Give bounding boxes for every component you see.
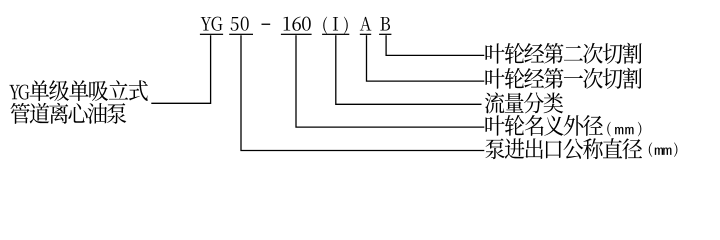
model code number 50 xyxy=(231,17,239,31)
label: impeller after first cut xyxy=(485,68,504,88)
label: impeller after second cut xyxy=(485,43,504,63)
wire from B down-right to second-cut label xyxy=(386,35,484,55)
label: impeller nominal outer diameter xyxy=(485,115,504,135)
wire from YG down-left to left label xyxy=(151,35,210,103)
underline under A xyxy=(360,34,371,35)
wire from 50 down-right to pump-diameter label xyxy=(241,35,484,150)
label: pump inlet/outlet nominal diameter xyxy=(485,138,504,159)
underline under (I) xyxy=(322,34,349,35)
underline under B xyxy=(379,34,391,35)
wire from A down-right to first-cut label xyxy=(367,35,485,81)
underline under 160 xyxy=(281,34,312,35)
model code letter A xyxy=(360,17,371,31)
label: flow classification xyxy=(485,92,504,113)
model code dash xyxy=(262,24,271,25)
wire from (I) down-right to flow-class label xyxy=(336,35,482,104)
model code letters YG xyxy=(201,17,212,31)
left label line 2: pipeline centrifugal oil pump xyxy=(10,103,29,124)
left label line 1: YG single-stage single-suction vertical xyxy=(9,85,19,99)
model code letter B xyxy=(380,17,390,31)
model code roman numeral (I) xyxy=(323,17,327,35)
model code number 160 xyxy=(284,17,291,31)
label 5 unit (mm) xyxy=(649,142,652,157)
wire from 160 down-right to impeller-diameter label xyxy=(296,35,484,127)
label 4 unit (mm) xyxy=(607,122,610,137)
underline under 50 xyxy=(229,34,253,35)
underline under YG xyxy=(200,34,223,35)
